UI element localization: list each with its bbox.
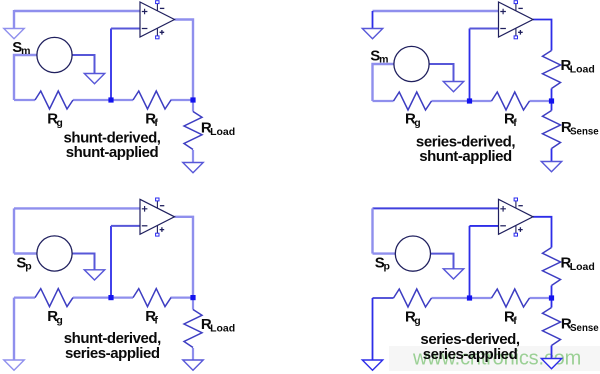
svg-text:f: f — [513, 315, 517, 327]
svg-text:Load: Load — [210, 126, 235, 138]
svg-text:f: f — [154, 315, 158, 327]
svg-text:g: g — [56, 315, 62, 327]
svg-text:Load: Load — [570, 64, 595, 76]
svg-text:shunt-applied: shunt-applied — [419, 148, 512, 165]
svg-text:Load: Load — [570, 261, 595, 273]
svg-text:p: p — [25, 261, 31, 273]
svg-text:Sense: Sense — [570, 323, 599, 334]
svg-text:g: g — [414, 315, 420, 327]
svg-text:p: p — [384, 261, 390, 273]
svg-text:m: m — [21, 45, 30, 57]
svg-text:g: g — [56, 117, 62, 129]
svg-text:shunt-applied: shunt-applied — [66, 144, 159, 161]
svg-text:g: g — [414, 117, 420, 129]
svg-text:f: f — [154, 117, 158, 129]
svg-text:series-applied: series-applied — [423, 346, 518, 363]
svg-text:Sense: Sense — [570, 126, 599, 137]
svg-text:series-applied: series-applied — [65, 345, 160, 362]
svg-text:m: m — [379, 54, 388, 66]
svg-text:f: f — [513, 117, 517, 129]
svg-text:Load: Load — [210, 323, 235, 335]
